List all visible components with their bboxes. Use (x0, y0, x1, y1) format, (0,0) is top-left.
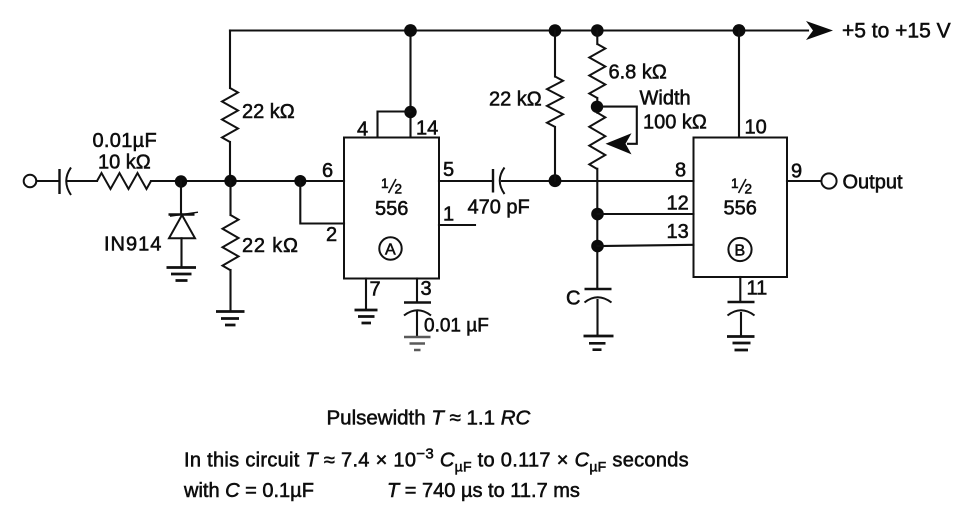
wire R1 bottom to input node (229, 142, 231, 181)
wire R3 to ground (229, 270, 231, 310)
svg-text:2: 2 (745, 182, 753, 197)
pin 14 label (416, 118, 438, 140)
diode D1 IN914 (104, 212, 198, 255)
wire pin 12 (598, 213, 694, 215)
svg-text:6: 6 (322, 160, 333, 182)
resistor R2 10 kOhm (97, 152, 151, 190)
svg-text:22 kΩ: 22 kΩ (242, 101, 295, 123)
node R5/pot tie (591, 101, 603, 113)
svg-text:22 kΩ: 22 kΩ (489, 89, 542, 111)
wire C5 to ground (740, 313, 742, 336)
svg-text:10: 10 (745, 117, 767, 139)
node rail tap R5 (591, 24, 604, 37)
wire pin2 branch (300, 181, 344, 224)
potentiometer R6 Width 100 kOhm (589, 88, 707, 170)
op-amp U1A timer 1/2 556 (A) (344, 138, 439, 279)
node pins 4-14 tie (404, 106, 416, 118)
svg-text:14: 14 (416, 118, 438, 140)
ground (pin 7) (355, 310, 378, 323)
svg-text:0.01µF: 0.01µF (93, 130, 157, 152)
svg-text:2: 2 (326, 224, 337, 246)
wire top supply rail (230, 29, 808, 31)
node input junction B (224, 175, 236, 187)
svg-text:6.8 kΩ: 6.8 kΩ (609, 62, 667, 84)
ground (C4) (584, 336, 614, 350)
wire R4 to node (554, 127, 556, 181)
svg-text:Pulsewidth T ≈ 1.1 RC: Pulsewidth T ≈ 1.1 RC (327, 407, 531, 430)
wire pin 13 (598, 245, 694, 246)
wire C3 to ground (416, 312, 418, 336)
svg-text:100 kΩ: 100 kΩ (643, 112, 707, 134)
pin 3 label (421, 278, 432, 300)
svg-text:T = 740 µs to 11.7 ms: T = 740 µs to 11.7 ms (387, 480, 580, 502)
pin 9 label (791, 161, 802, 183)
node rail tap pin 10 (733, 24, 746, 37)
svg-text:7: 7 (370, 279, 381, 301)
pin 8 label (675, 160, 686, 182)
pin 7 label (370, 279, 381, 301)
resistor R4 22 kOhm (pull-up) (489, 77, 563, 127)
pin 11 label (747, 278, 768, 300)
wire pin 9 to output (787, 180, 821, 182)
svg-text:11: 11 (747, 278, 768, 300)
wire R2 to IC A pin 6 (151, 180, 344, 182)
pin 2 label (326, 224, 337, 246)
pin 6 label (322, 160, 333, 182)
output terminal circle (821, 172, 903, 194)
svg-text:10 kΩ: 10 kΩ (98, 152, 151, 174)
pin 1 stub (439, 224, 475, 226)
node C2/R4/pin8 (549, 174, 562, 187)
svg-text:556: 556 (375, 198, 408, 220)
node input junction C (pin2 branch) (294, 175, 306, 187)
svg-text:+5 to +15 V: +5 to +15 V (842, 20, 951, 43)
node input junction A (175, 175, 187, 187)
svg-text:4: 4 (357, 119, 368, 141)
svg-text:0.01 µF: 0.01 µF (424, 316, 489, 337)
wire C1 to R2 (67, 180, 97, 182)
capacitor C5 (pin 11) (728, 302, 755, 316)
wire pot to C4 (596, 169, 598, 289)
svg-text:8: 8 (675, 160, 686, 182)
pin 12 label (667, 193, 689, 215)
resistor R3 22 kOhm (lower) (223, 215, 299, 270)
svg-text:Width: Width (640, 88, 691, 110)
formula line 1 Pulsewidth (327, 407, 531, 430)
wire rail to R5 (596, 31, 598, 45)
svg-text:12: 12 (667, 193, 689, 215)
pin 4 label (357, 119, 368, 141)
wire C2 to node (502, 180, 694, 182)
ground (C5) (727, 337, 755, 351)
supply arrowhead +5 to +15 V (806, 20, 951, 43)
pin 1 label (443, 204, 454, 226)
wire rail to pin 14 (409, 31, 411, 138)
formula line 3 with C (183, 480, 580, 502)
node pin 13 tap (591, 240, 604, 253)
node pin 12 tap (591, 208, 604, 221)
input terminal circle (24, 175, 37, 188)
ground (R3) (216, 312, 245, 326)
wire pin 11 (739, 277, 741, 302)
pin 5 label (443, 159, 454, 181)
formula line 2 In this circuit (184, 446, 689, 475)
svg-text:22 kΩ: 22 kΩ (242, 235, 299, 257)
wire rail to R4 (554, 31, 556, 77)
capacitor C3 0.01 uF (pin 3) (404, 303, 489, 337)
pin 13 label (667, 221, 689, 243)
svg-text:Output: Output (843, 172, 903, 194)
svg-text:with C = 0.1µF: with C = 0.1µF (183, 480, 314, 502)
capacitor C2 470 pF (468, 168, 530, 219)
node rail tap R4 (549, 24, 562, 37)
svg-text:B: B (735, 243, 746, 260)
capacitor C1 0.01uF (input coupling) (60, 130, 157, 195)
svg-text:3: 3 (421, 278, 432, 300)
pin 10 label (745, 117, 767, 139)
ground (diode) (167, 268, 197, 281)
svg-text:C: C (566, 288, 580, 310)
wire pin 7 (365, 279, 367, 310)
svg-text:1: 1 (381, 176, 389, 191)
wire junction A to diode (180, 181, 182, 213)
svg-text:A: A (385, 242, 396, 259)
wire R5 to wiper node (596, 98, 598, 113)
svg-text:1: 1 (731, 176, 739, 191)
svg-text:9: 9 (791, 161, 802, 183)
resistor R5 6.8 kOhm (589, 44, 667, 98)
ground (C3, faded) (404, 337, 431, 350)
svg-text:IN914: IN914 (104, 234, 162, 256)
wire rail to pin 10 (738, 31, 740, 138)
svg-text:13: 13 (667, 221, 689, 243)
svg-text:470 pF: 470 pF (468, 197, 530, 219)
wire junction B to R3 (229, 181, 231, 215)
resistor R1 22 kOhm (upper left) (222, 88, 295, 142)
capacitor C4 C (timing) (566, 288, 612, 310)
svg-text:1: 1 (443, 204, 454, 226)
node rail tap U1A (404, 24, 417, 37)
wire diode to ground (180, 238, 182, 267)
wire pin 5 to C2 (439, 180, 493, 182)
svg-text:556: 556 (724, 198, 757, 220)
node rail-R1 corner (229, 31, 231, 89)
wire pin 3 (416, 279, 418, 303)
svg-text:In this circuit T ≈ 7.4 × 10−3: In this circuit T ≈ 7.4 × 10−3 CµF to 0.… (184, 446, 689, 475)
wire pin 4 bracket (378, 112, 411, 138)
wire C4 to ground (596, 300, 598, 336)
svg-text:5: 5 (443, 159, 454, 181)
op-amp U1B timer 1/2 556 (B) (694, 138, 788, 278)
wire input to C1 (37, 180, 60, 182)
svg-text:2: 2 (395, 182, 403, 197)
